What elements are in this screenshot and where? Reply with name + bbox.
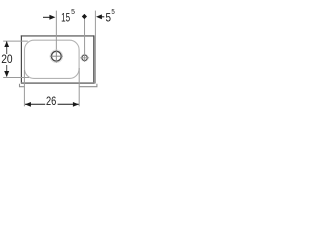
svg-text:15: 15 xyxy=(61,13,70,25)
svg-text:5: 5 xyxy=(106,13,112,25)
svg-text:26: 26 xyxy=(46,96,56,108)
svg-text:5: 5 xyxy=(71,7,75,16)
svg-text:5: 5 xyxy=(111,7,114,16)
svg-text:20: 20 xyxy=(1,54,12,66)
